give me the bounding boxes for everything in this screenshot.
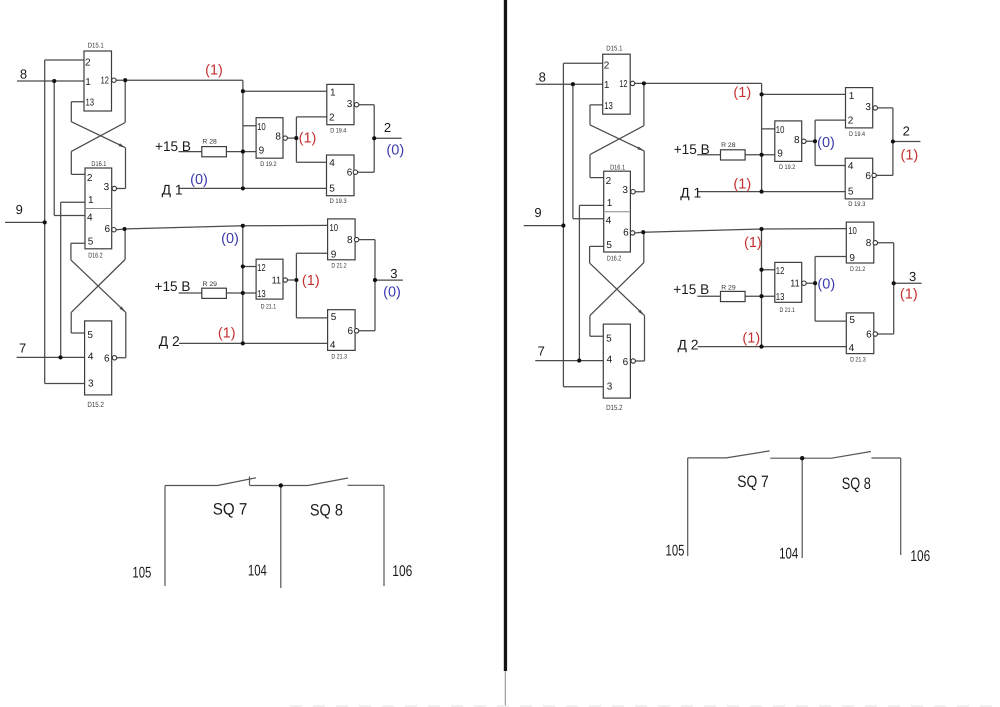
svg-text:(0): (0) (190, 172, 208, 188)
svg-text:(0): (0) (817, 276, 835, 292)
svg-text:(0): (0) (221, 231, 239, 247)
svg-text:(1): (1) (205, 63, 223, 79)
svg-text:(1): (1) (742, 331, 760, 347)
svg-text:104: 104 (248, 563, 267, 580)
svg-text:(1): (1) (302, 273, 320, 289)
svg-text:(0): (0) (817, 135, 835, 151)
svg-text:106: 106 (910, 548, 930, 565)
svg-text:(1): (1) (744, 235, 762, 251)
svg-text:105: 105 (132, 564, 151, 581)
svg-text:(1): (1) (901, 148, 919, 164)
svg-text:(1): (1) (218, 326, 236, 342)
svg-text:(1): (1) (299, 130, 317, 146)
svg-text:SQ 7: SQ 7 (213, 501, 248, 519)
svg-text:SQ 8: SQ 8 (842, 475, 871, 493)
svg-text:SQ 7: SQ 7 (737, 473, 769, 491)
svg-text:(1): (1) (733, 176, 751, 192)
svg-text:(1): (1) (733, 85, 751, 101)
svg-text:104: 104 (779, 546, 798, 563)
svg-text:(0): (0) (383, 285, 401, 301)
svg-text:106: 106 (392, 563, 412, 580)
svg-text:(1): (1) (900, 286, 918, 302)
svg-text:SQ 8: SQ 8 (310, 501, 343, 519)
svg-text:105: 105 (666, 542, 685, 559)
svg-text:(0): (0) (386, 142, 404, 158)
